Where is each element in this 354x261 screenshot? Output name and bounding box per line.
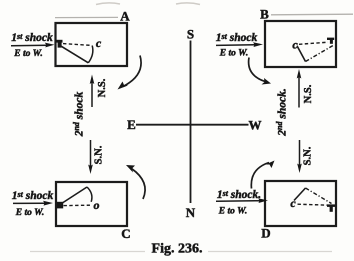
pendulum C pivot [57,202,63,209]
shock arrow D (E to W) [216,198,268,203]
svg-text:c: c [96,36,102,50]
label C [121,226,130,241]
frame C (bottom-left rectangle) [56,182,127,226]
shock label group D: 1st shock. [217,189,261,201]
shock label group B: 1st shock [216,32,258,44]
faint show-through smudge right of caption [208,251,332,253]
compass E label [127,117,136,132]
pendulum B pivot mark r [327,38,334,44]
second shock up arrow left column [90,75,95,108]
frame B (top-right rectangle) [265,21,336,67]
frame A (top-left rectangle) [56,23,128,66]
pendulum C swing arc [87,187,92,202]
second shock down arrow left column [88,140,93,174]
svg-text:S.N.: S.N. [93,145,104,164]
pendulum C upper cord [60,187,87,205]
svg-text:E to W.: E to W. [219,49,248,59]
pendulum C dashed cord to o [64,204,91,206]
pendulum B bob label c [292,38,298,52]
svg-text:o: o [94,198,100,212]
faint ghost mark top-left [96,3,120,5]
svg-text:D: D [261,226,270,241]
shock arrow C (E to W) [13,201,53,206]
shock arrow B (E to W) [216,42,263,47]
second shock up arrow right column [297,69,302,108]
svg-text:1st shock.: 1st shock. [217,189,261,201]
S.N. label left column [93,145,104,164]
pendulum D swing cord [294,188,306,201]
svg-text:2nd shock: 2nd shock [72,91,85,137]
frame D (bottom-right rectangle) [265,181,336,226]
svg-text:E to W.: E to W. [15,208,44,218]
svg-text:N.S.: N.S. [303,84,314,103]
pendulum D dash-dot return cord [306,188,332,204]
compass horizontal axis E-W [136,124,249,126]
svg-text:S: S [187,26,194,41]
faint show-through rule left of A [55,16,118,18]
pendulum C bob label o [94,198,100,212]
pendulum A swing arc [88,46,93,63]
faint show-through smudge left of caption [30,251,145,253]
pendulum D dashed cord c to pivot [298,204,330,205]
2nd shock label left column [72,91,85,137]
svg-text:1st shock: 1st shock [216,32,258,44]
label A [120,9,130,24]
shock label group D: E to W. [218,206,247,216]
shock label group A: E to W. [13,49,42,59]
svg-text:B: B [260,7,269,22]
svg-text:Fig. 236.: Fig. 236. [152,242,203,257]
svg-text:E: E [127,117,136,132]
compass vertical axis S-N [190,41,192,204]
faint ghost mark top-center [176,3,200,5]
2nd shock label right column [275,88,288,136]
rotation arrow near D [251,161,274,189]
shock label group C: E to W. [15,208,44,218]
shock arrow A (E to W) [11,43,55,48]
pendulum A lower cord [60,45,89,63]
svg-text:A: A [120,9,130,24]
second shock down arrow right column [297,140,302,173]
svg-text:N: N [186,205,196,220]
shock label group C: 1st shock [12,190,54,202]
shock label group A: 1st shock [11,32,53,44]
N.S. label left column [97,78,108,97]
svg-text:E to W.: E to W. [13,49,42,59]
svg-text:1st shock: 1st shock [11,32,53,44]
figure caption [152,242,203,257]
shock label group B: E to W. [219,49,248,59]
pendulum D pivot mark r [327,204,335,211]
svg-text:E to W.: E to W. [218,206,247,216]
svg-text:c: c [292,38,298,52]
rotation arrow near A [118,56,142,90]
svg-text:2nd shock.: 2nd shock. [275,88,288,136]
S.N. label right column [302,146,313,165]
pendulum B dash-dot return cord [306,45,335,62]
svg-text:W: W [249,118,262,133]
pendulum A pivot [56,40,63,48]
compass N label [186,205,196,220]
pendulum A bob label c [96,36,102,50]
pendulum B swing cord [297,46,306,62]
svg-text:N.S.: N.S. [97,78,108,97]
pendulum D bob label c [290,196,296,210]
pendulum A dashed cord to c [63,44,92,46]
rotation arrow near B [249,58,271,85]
pendulum B dashed cord c to pivot [299,42,328,44]
N.S. label right column [303,84,314,103]
svg-text:1st shock: 1st shock [12,190,54,202]
rotation arrow near C [126,165,145,199]
compass S label [187,26,194,41]
svg-text:S.N.: S.N. [302,146,313,165]
label D [261,226,270,241]
label B [260,7,269,22]
svg-text:C: C [121,226,130,241]
faint show-through rule right of B [271,13,353,16]
compass W label [249,118,262,133]
